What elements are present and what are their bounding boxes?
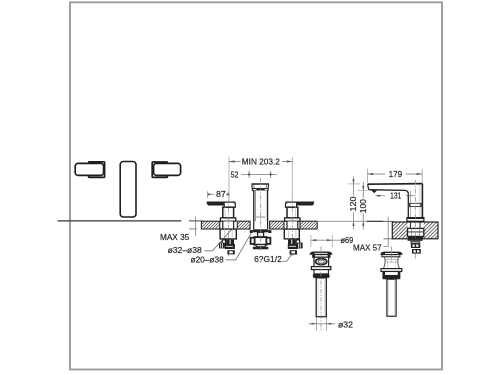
svg-text:6?G1/2: 6?G1/2	[254, 254, 282, 264]
svg-text:ø32–ø38: ø32–ø38	[168, 245, 202, 255]
svg-text:MIN 203.2: MIN 203.2	[242, 157, 280, 167]
svg-text:87: 87	[216, 189, 226, 199]
svg-text:MAX 35: MAX 35	[160, 232, 190, 242]
svg-text:100: 100	[358, 199, 368, 213]
svg-text:179: 179	[389, 169, 403, 179]
svg-text:131: 131	[390, 190, 402, 200]
svg-text:120: 120	[348, 196, 358, 211]
svg-text:ø20–ø38: ø20–ø38	[191, 255, 225, 265]
svg-text:ø32: ø32	[338, 319, 353, 329]
svg-text:ø69: ø69	[341, 235, 354, 245]
svg-text:52: 52	[231, 169, 239, 179]
svg-text:MAX 57: MAX 57	[353, 242, 382, 252]
